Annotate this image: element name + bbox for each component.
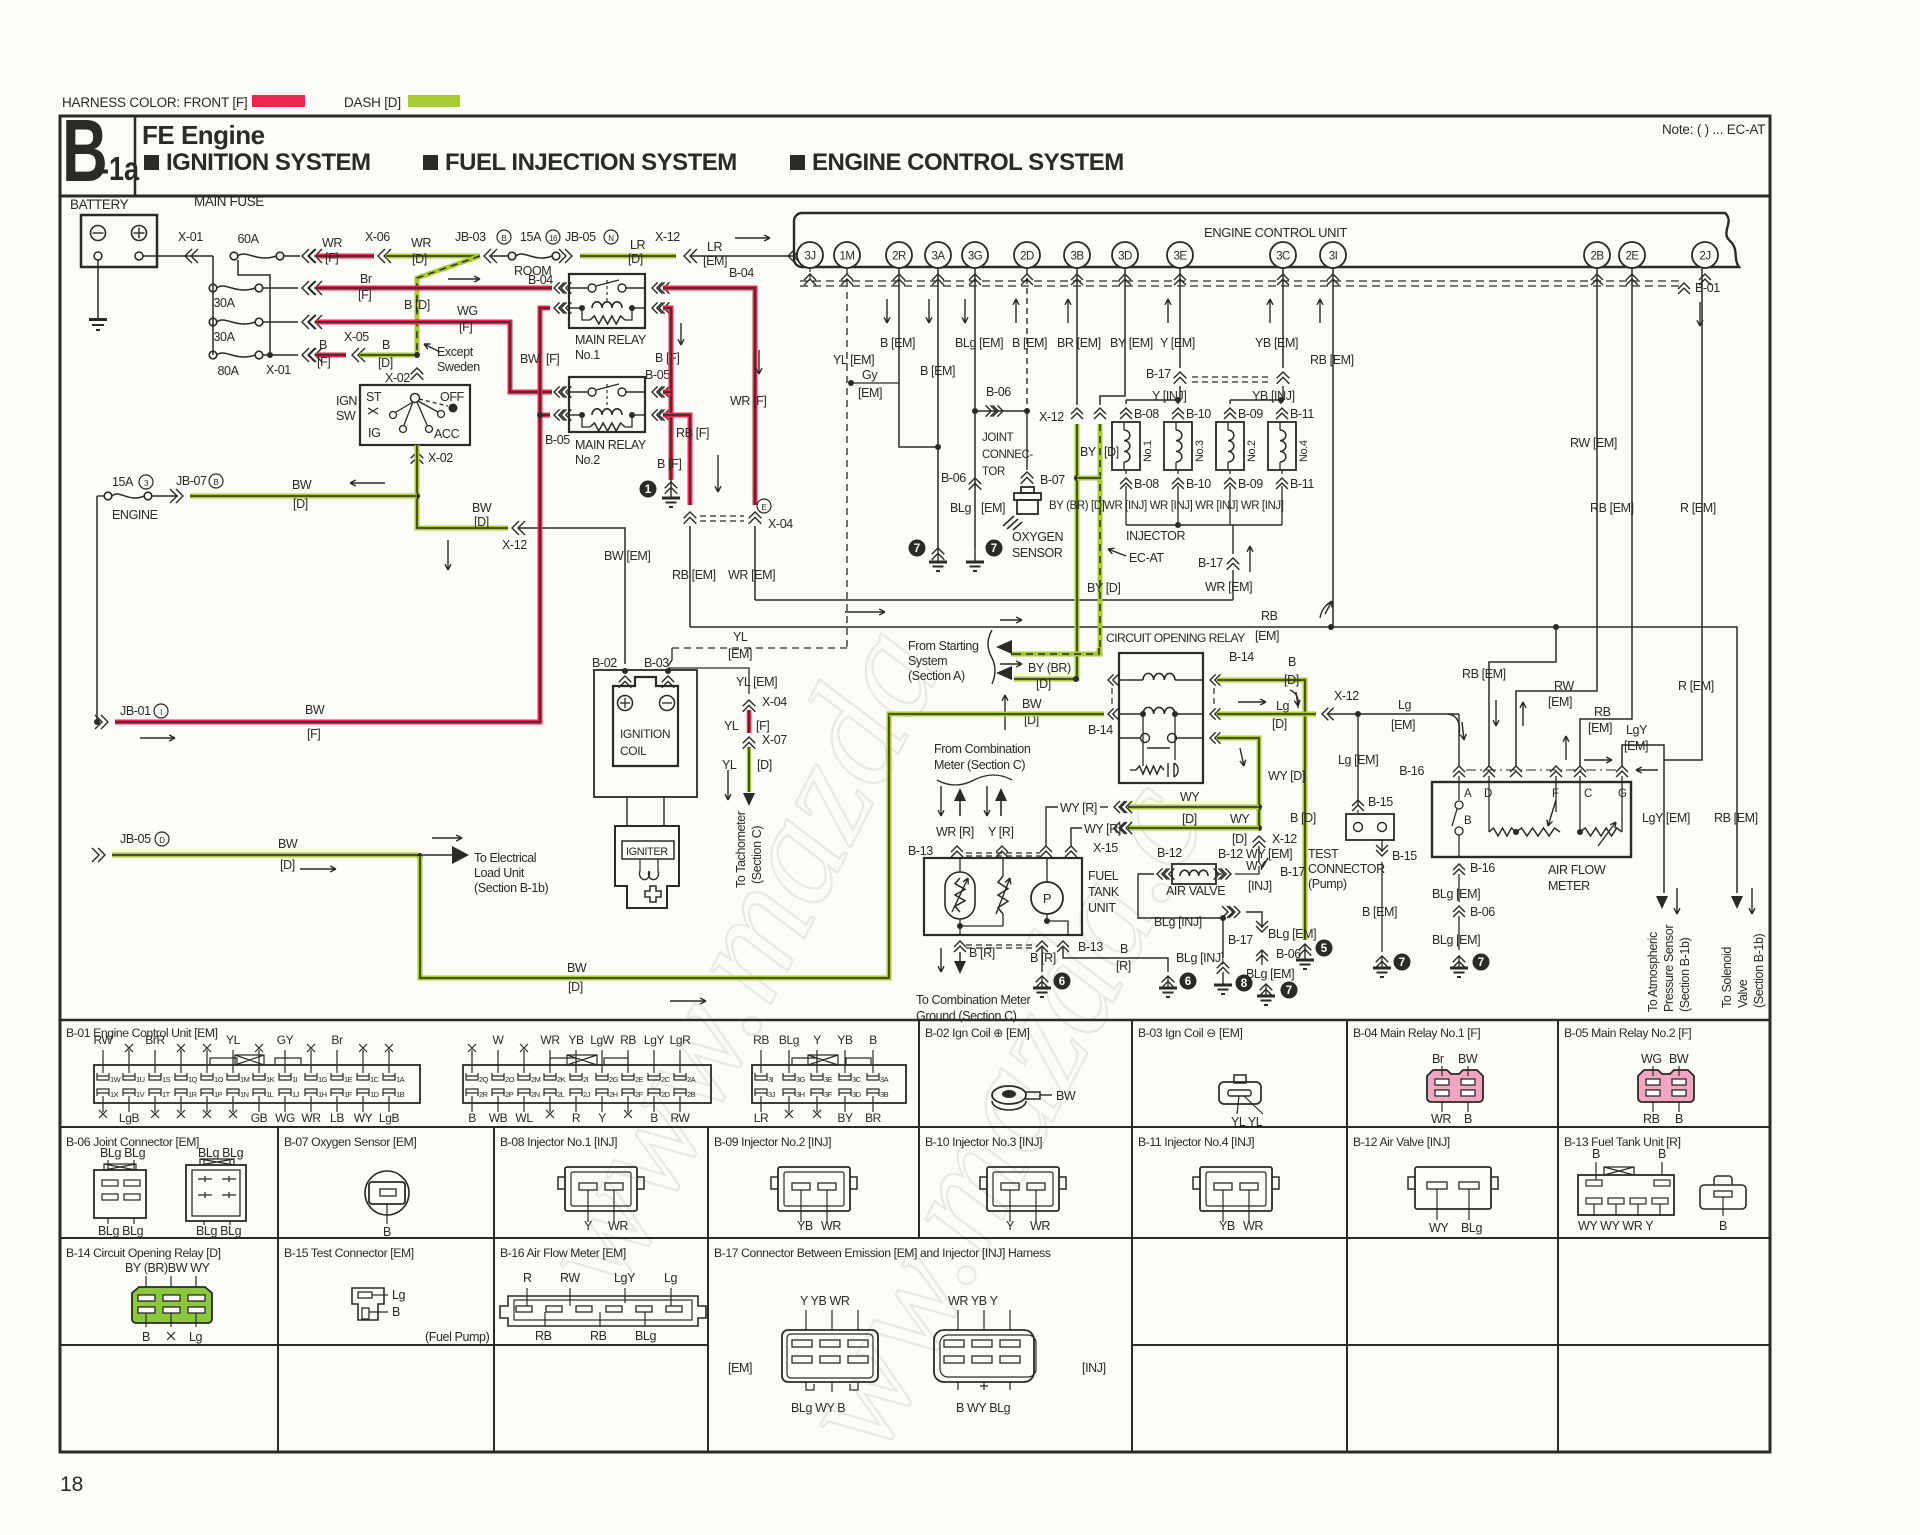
svg-text:BY [EM]: BY [EM] [1110,336,1153,350]
svg-text:B-03 Ign Coil ⊖ [EM]: B-03 Ign Coil ⊖ [EM] [1138,1026,1243,1040]
svg-text:7: 7 [991,543,997,555]
svg-text:3A: 3A [931,251,945,263]
wire Y [EM] from 3E [1179,268,1181,368]
battery ground wire [97,260,99,318]
svg-text:B-14 Circuit Opening Relay [D: B-14 Circuit Opening Relay [D] [66,1246,221,1260]
svg-text:[EM]: [EM] [1391,718,1415,732]
wire B [D] green diagonal [417,256,480,356]
svg-text:1U: 1U [136,1075,145,1084]
svg-text:BLg [EM]: BLg [EM] [955,336,1003,350]
svg-text:7: 7 [1478,957,1484,969]
wire B [EM] from 3A to ground [937,268,939,548]
svg-text:(Section B-1b): (Section B-1b) [474,881,549,895]
svg-text:JB-05: JB-05 [565,230,596,244]
wire WY [R] stubs [1046,807,1058,846]
wire Br [F] red row2 [263,287,298,289]
svg-text:RB [EM]: RB [EM] [1310,353,1354,367]
svg-text:B [F]: B [F] [655,351,679,365]
svg-text:WY: WY [1180,790,1200,804]
svg-text:B: B [1288,655,1296,669]
svg-text:1V: 1V [136,1090,145,1099]
svg-text:IGNITER: IGNITER [626,846,668,858]
svg-text:B: B [1658,1147,1666,1161]
svg-text:[D]: [D] [1232,832,1247,846]
svg-text:JOINT: JOINT [982,432,1014,444]
ECU pin 3I [1320,242,1346,268]
svg-text:-1a: -1a [100,152,139,188]
svg-text:B-01 Engine Control Unit [EM]: B-01 Engine Control Unit [EM] [66,1026,218,1040]
svg-text:BrR: BrR [145,1033,165,1047]
svg-text:2B: 2B [1590,251,1604,263]
B-17 BLg stub [1222,918,1224,958]
svg-text:BY: BY [1080,445,1097,459]
svg-text:BLg BLg: BLg BLg [100,1146,146,1160]
svg-text:B-02 Ign Coil ⊕ [EM]: B-02 Ign Coil ⊕ [EM] [925,1026,1030,1040]
svg-text:B [EM]: B [EM] [920,364,955,378]
svg-text:From Starting: From Starting [908,639,979,653]
svg-text:[D]: [D] [628,252,643,266]
svg-text:CONNEC-: CONNEC- [982,449,1033,461]
svg-text:BW: BW [1022,697,1042,711]
injector feed right [1282,386,1284,400]
svg-text:BW: BW [520,352,540,366]
svg-text:1D: 1D [370,1090,380,1099]
legend red swatch [252,95,305,107]
svg-text:B-13: B-13 [1078,940,1103,954]
svg-text:[D]: [D] [474,515,489,529]
svg-text:B-07: B-07 [1040,473,1065,487]
svg-text:B-16: B-16 [1399,764,1424,778]
svg-text:B-05: B-05 [645,368,670,382]
ground 5 [1299,944,1312,956]
svg-text:[INJ]: [INJ] [1082,1361,1106,1375]
svg-text:RW: RW [560,1271,580,1285]
injector feed left [1179,386,1181,400]
svg-text:[R]: [R] [1116,959,1131,973]
wire RB EM into AFM right [1580,268,1632,766]
svg-text:No.2: No.2 [1246,440,1258,462]
ignition switch [360,385,470,445]
svg-text:BLg BLg: BLg BLg [196,1224,242,1238]
svg-text:B-15: B-15 [1392,849,1417,863]
svg-text:IG: IG [368,426,380,440]
wire BW [D] engine fuse to junction [190,494,417,499]
fuse 30A no1 [209,284,217,292]
svg-text:1X: 1X [110,1090,119,1099]
svg-text:JB-05: JB-05 [120,832,151,846]
title block divider [134,116,137,196]
ground battery [89,318,107,321]
svg-text:INJECTOR: INJECTOR [1126,529,1185,543]
svg-text:B: B [1675,1112,1683,1126]
svg-text:Y [INJ]: Y [INJ] [1152,389,1186,403]
svg-text:7: 7 [1286,985,1292,997]
svg-text:MAIN FUSE: MAIN FUSE [194,194,264,209]
air flow meter box [1432,782,1631,857]
section code B-1a [62,103,108,201]
svg-text:B: B [382,338,390,352]
svg-text:OFF: OFF [440,390,465,404]
connector B-17 lower [1227,558,1240,570]
svg-text:[D]: [D] [293,497,308,511]
svg-text:ENGINE: ENGINE [112,508,158,522]
60A feed [238,260,270,355]
wire Lg [EM] [1328,713,1459,715]
svg-text:YB: YB [1219,1219,1235,1233]
svg-text:B-11: B-11 [1290,407,1314,421]
svg-text:YL: YL [722,758,737,772]
svg-text:B-04: B-04 [729,266,754,280]
svg-text:1S: 1S [162,1075,171,1084]
svg-text:BLg: BLg [950,501,971,515]
svg-text:R [EM]: R [EM] [1680,501,1716,515]
svg-text:WR [F]: WR [F] [730,394,766,408]
svg-text:1L: 1L [266,1090,274,1099]
svg-text:[EM]: [EM] [858,386,882,400]
svg-text:BR [EM]: BR [EM] [1057,336,1101,350]
svg-text:B [EM]: B [EM] [880,336,915,350]
svg-text:UNIT: UNIT [1088,901,1116,915]
B-01 bridge marks [210,1055,301,1065]
svg-text:YL: YL [724,719,739,733]
svg-text:X-12: X-12 [1039,410,1064,424]
svg-text:WR: WR [411,236,431,250]
engine control unit box [794,213,1739,267]
svg-text:1C: 1C [370,1075,380,1084]
wire LR [D] green [580,254,676,259]
svg-text:X-06: X-06 [365,230,390,244]
svg-text:WG: WG [275,1111,295,1125]
table column lines row2 [277,1127,279,1238]
svg-text:BLg: BLg [635,1329,656,1343]
svg-text:B: B [214,478,219,487]
svg-text:(Fuel Pump): (Fuel Pump) [425,1330,490,1344]
svg-text:X-12: X-12 [1334,689,1359,703]
svg-text:BLg WY B: BLg WY B [791,1401,845,1415]
svg-text:Y: Y [584,1219,593,1233]
svg-text:3E: 3E [1173,251,1187,263]
connector B-07 chevron [1021,472,1034,484]
ignition switch X-02 top [411,368,424,380]
svg-text:B-12: B-12 [1157,846,1182,860]
fuel pump [1031,882,1063,914]
svg-text:JB-03: JB-03 [455,230,486,244]
svg-text:X-01: X-01 [266,363,291,377]
svg-text:BW: BW [292,478,312,492]
connector X-04 jumper [684,512,697,524]
svg-text:JB-07: JB-07 [176,474,207,488]
svg-text:BW: BW [567,961,587,975]
svg-text:YL: YL [733,630,748,644]
connector B-05 [1638,1070,1694,1102]
svg-text:[EM]: [EM] [981,501,1005,515]
wire YL [EM] dashed horizontal [672,647,847,649]
svg-text:60A: 60A [237,232,259,246]
svg-text:1G: 1G [318,1075,328,1084]
wire Lg EM into pin A [1448,714,1460,736]
fuel tank bottom bus [954,941,966,952]
table column lines row1 [918,1020,920,1127]
ground 7 right [986,540,1003,557]
svg-text:2C: 2C [661,1075,671,1084]
svg-text:BW: BW [472,501,492,515]
svg-text:2B: 2B [687,1090,696,1099]
wire WG [F] red row3 [263,321,298,323]
fuse 60A [230,252,238,260]
svg-text:80A: 80A [217,364,239,378]
svg-text:Lg: Lg [1276,699,1290,713]
svg-text:B: B [1592,1147,1600,1161]
COR contact [1119,737,1140,739]
wire BLg [EM] from 3G to ground [974,268,976,548]
svg-text:Ground (Section C): Ground (Section C) [916,1009,1017,1023]
svg-text:[F]: [F] [358,288,371,302]
svg-text:B-17: B-17 [1198,556,1223,570]
svg-text:[D]: [D] [280,858,295,872]
wire WR [F] red from relay1 [663,288,755,505]
svg-text:WR: WR [821,1219,841,1233]
svg-text:1: 1 [645,484,652,496]
svg-text:LgY [EM]: LgY [EM] [1642,811,1690,825]
wire B [F] red relay outputs to ground [663,308,671,480]
svg-text:YB [EM]: YB [EM] [1255,336,1298,350]
wire B [F] red row4 [263,354,270,356]
wire B-03 branch [668,648,672,666]
ECU pin 2B [1584,242,1610,268]
svg-text:B: B [869,1033,877,1047]
svg-text:2G: 2G [609,1075,619,1084]
svg-text:X-12: X-12 [502,538,527,552]
svg-text:RB [F]: RB [F] [676,426,709,440]
svg-text:B-10 Injector No.3 [INJ]: B-10 Injector No.3 [INJ] [925,1135,1042,1149]
svg-text:Lg: Lg [664,1271,678,1285]
svg-text:LgW: LgW [590,1033,615,1047]
table bottom rule [60,1451,1770,1454]
svg-text:B-17: B-17 [1280,865,1305,879]
svg-text:No.1: No.1 [1142,440,1154,462]
svg-text:RB: RB [535,1329,552,1343]
svg-text:B [EM]: B [EM] [1362,905,1397,919]
svg-text:[F]: [F] [546,352,559,366]
wire RB EM into pin D [1489,627,1556,766]
svg-text:LR: LR [630,238,646,252]
svg-text:(Section A): (Section A) [908,669,965,683]
svg-text:B-14: B-14 [1229,650,1254,664]
svg-text:3B: 3B [1070,251,1084,263]
svg-text:3D: 3D [852,1090,862,1099]
main relay no1 [569,274,645,328]
svg-text:[F]: [F] [307,727,320,741]
svg-text:WY: WY [354,1111,373,1125]
wire B [EM] from 2D to oxygen sensor [1026,268,1028,411]
svg-text:X-01: X-01 [178,230,203,244]
svg-text:Gy: Gy [862,368,878,382]
svg-text:RB: RB [590,1329,607,1343]
svg-text:WR YB Y: WR YB Y [948,1294,999,1308]
svg-text:To Tachometer: To Tachometer [734,811,748,888]
svg-text:B: B [1120,942,1128,956]
svg-text:X-15: X-15 [1093,841,1118,855]
wire BW [D] green to COR [889,712,1104,717]
svg-text:R: R [523,1271,532,1285]
connector X-04 tach [743,700,756,712]
svg-text:BY [D]: BY [D] [1087,581,1121,595]
svg-text:B [R]: B [R] [969,946,995,960]
svg-text:X-12: X-12 [655,230,680,244]
svg-text:LgY: LgY [1626,723,1648,737]
svg-text:1H: 1H [318,1090,327,1099]
wire YL [D] green [747,747,752,792]
svg-text:Load Unit: Load Unit [474,866,525,880]
ECU dashed bus B-01 [800,280,1684,282]
svg-text:B-06: B-06 [1276,947,1301,961]
svg-text:B-05 Main Relay No.2 [F]: B-05 Main Relay No.2 [F] [1564,1026,1691,1040]
wire RB [EM] down [689,526,691,627]
injector common bus [1126,524,1282,526]
svg-text:Y [R]: Y [R] [988,825,1014,839]
svg-text:3J: 3J [804,251,815,263]
svg-text:1F: 1F [344,1090,353,1099]
svg-text:LB: LB [330,1111,344,1125]
svg-text:ENGINE CONTROL SYSTEM: ENGINE CONTROL SYSTEM [812,149,1124,176]
svg-text:B: B [142,1330,150,1344]
svg-text:1J: 1J [292,1090,300,1099]
svg-text:[D]: [D] [568,980,583,994]
connector B-02 ring terminal [992,1086,1026,1104]
svg-text:BLg [INJ]: BLg [INJ] [1176,951,1224,965]
svg-text:ACC: ACC [434,427,460,441]
svg-text:3B: 3B [880,1090,889,1099]
svg-text:3J: 3J [768,1090,776,1099]
svg-text:LgR: LgR [670,1033,692,1047]
svg-text:B-04 Main Relay No.1 [F]: B-04 Main Relay No.1 [F] [1353,1026,1480,1040]
svg-text:RB [EM]: RB [EM] [672,568,716,582]
svg-text:B-08: B-08 [1134,407,1159,421]
svg-text:3C: 3C [852,1075,862,1084]
svg-text:B [EM]: B [EM] [1012,336,1047,350]
fuel gauge symbol [945,872,975,919]
circuit opening relay box [1119,653,1203,783]
svg-text:C: C [1584,788,1592,800]
svg-text:B [D]: B [D] [1290,811,1316,825]
AFM switch [1458,776,1460,800]
ECU pin 2R [886,242,912,268]
svg-text:B-09: B-09 [1238,407,1263,421]
svg-text:A: A [1464,788,1472,800]
svg-text:(Pump): (Pump) [1308,877,1347,891]
COR coil 2 [1119,713,1143,715]
watermark [501,600,1237,1475]
wire BW [F] red long [115,308,550,722]
svg-text:B-15: B-15 [1368,795,1393,809]
svg-text:[D]: [D] [1182,812,1197,826]
svg-text:15A: 15A [112,475,134,489]
svg-text:MAIN RELAY: MAIN RELAY [575,438,647,452]
svg-text:RW: RW [1554,679,1574,693]
svg-text:RB [EM]: RB [EM] [1590,501,1634,515]
svg-text:30A: 30A [213,330,235,344]
wire BW [EM] to ign coil [518,528,625,664]
svg-text:WG: WG [457,304,478,318]
svg-text:I: I [160,708,162,717]
injector No.4 [1276,408,1288,419]
svg-text:P: P [1043,891,1051,906]
fuel tank unit box [924,858,1082,935]
svg-text:B: B [1719,1219,1727,1233]
svg-text:WR [EM]: WR [EM] [1205,580,1252,594]
wire B [EM] from 2R [899,268,938,447]
ground 7 test [1394,954,1411,971]
svg-text:6: 6 [1185,976,1191,988]
svg-text:BLg [EM]: BLg [EM] [1246,967,1294,981]
svg-text:B-08: B-08 [1134,477,1159,491]
svg-text:2I: 2I [583,1075,589,1084]
svg-text:B: B [502,234,507,243]
wire RW EM into AFM [1516,268,1597,766]
svg-text:TEST: TEST [1308,847,1339,861]
svg-text:Meter (Section C): Meter (Section C) [934,758,1025,772]
svg-text:X-12: X-12 [1272,832,1297,846]
svg-text:No.2: No.2 [575,453,600,467]
svg-text:1B: 1B [396,1090,405,1099]
svg-text:[F]: [F] [317,355,330,369]
svg-text:18: 18 [60,1473,83,1496]
svg-text:2M: 2M [531,1075,541,1084]
svg-text:B-12 Air Valve [INJ]: B-12 Air Valve [INJ] [1353,1135,1450,1149]
svg-text:2F: 2F [635,1090,644,1099]
svg-text:Lg [EM]: Lg [EM] [1338,753,1378,767]
svg-text:AIR VALVE: AIR VALVE [1166,884,1225,898]
fuse 80A [209,351,217,359]
svg-text:TANK: TANK [1088,885,1120,899]
svg-text:LR: LR [754,1111,769,1125]
svg-text:LgB: LgB [119,1111,140,1125]
svg-text:[EM]: [EM] [1624,739,1648,753]
svg-text:B-02: B-02 [592,656,617,670]
svg-text:WR: WR [1243,1219,1263,1233]
svg-text:B-15 Test Connector [EM]: B-15 Test Connector [EM] [284,1246,414,1260]
svg-text:MAIN RELAY: MAIN RELAY [575,333,647,347]
wire RB [EM] from 3I [1332,268,1334,627]
svg-text:[D]: [D] [378,356,393,370]
svg-text:LgY: LgY [644,1033,665,1047]
svg-text:WR [R]: WR [R] [936,825,974,839]
svg-text:3F: 3F [824,1090,833,1099]
connector B-01 block 2 [463,1033,711,1125]
svg-text:ST: ST [366,390,382,404]
svg-text:[EM]: [EM] [728,1361,752,1375]
branch red to relay2 coil [540,413,550,418]
svg-text:B-10: B-10 [1186,477,1211,491]
svg-text:2D: 2D [661,1090,671,1099]
svg-text:YL YL: YL YL [1231,1115,1263,1129]
ground 7 left [909,540,926,557]
svg-text:[F]: [F] [325,251,338,265]
COR resistor capacitor [1136,766,1164,774]
svg-text:METER: METER [1548,879,1590,893]
svg-text:BLg [EM]: BLg [EM] [1432,933,1480,947]
svg-text:TOR: TOR [982,466,1005,478]
svg-text:(Section B-1b): (Section B-1b) [1678,937,1692,1012]
svg-text:B-16: B-16 [1470,861,1495,875]
ECU pin 3C [1270,242,1296,268]
wire battery to X-01 [143,255,213,257]
ECU pin 3G [962,242,988,268]
svg-text:(Section C): (Section C) [750,826,764,884]
svg-text:BLg BLg: BLg BLg [198,1146,244,1160]
svg-text:2K: 2K [557,1075,566,1084]
svg-text:RB: RB [1643,1112,1660,1126]
